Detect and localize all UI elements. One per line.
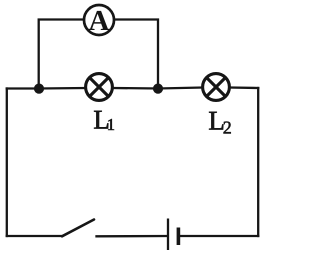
switch S (open blade) [62, 220, 94, 237]
wire: right edge of loop [257, 88, 259, 236]
wire: lamp L2 to top-right corner [230, 86, 258, 89]
wire: ammeter branch left leg (node A up) [39, 20, 83, 89]
node A junction dot [34, 84, 44, 94]
wire: node A to lamp L1 [39, 87, 85, 90]
wire: left edge of loop [6, 89, 8, 237]
battery: short plate (negative) [177, 228, 181, 246]
svg-text:1: 1 [107, 115, 115, 134]
wire: node B to lamp L2 [158, 88, 202, 89]
wire: top-left corner to node A [7, 87, 39, 89]
ammeter A (circle) [84, 5, 114, 35]
wire: bottom, left corner to switch [7, 235, 62, 237]
wire: switch to battery [97, 235, 168, 238]
svg-text:2: 2 [223, 118, 232, 138]
lamp L1 symbol [86, 74, 113, 101]
battery: long plate (positive) [167, 219, 169, 251]
node B junction dot [153, 84, 163, 94]
wire: battery to bottom-right corner [180, 235, 259, 237]
wire: ammeter branch right leg (to node B) [116, 20, 159, 89]
wire: lamp L1 to node B [113, 87, 158, 90]
lamp L2 symbol [203, 74, 230, 101]
svg-text:A: A [89, 5, 110, 37]
